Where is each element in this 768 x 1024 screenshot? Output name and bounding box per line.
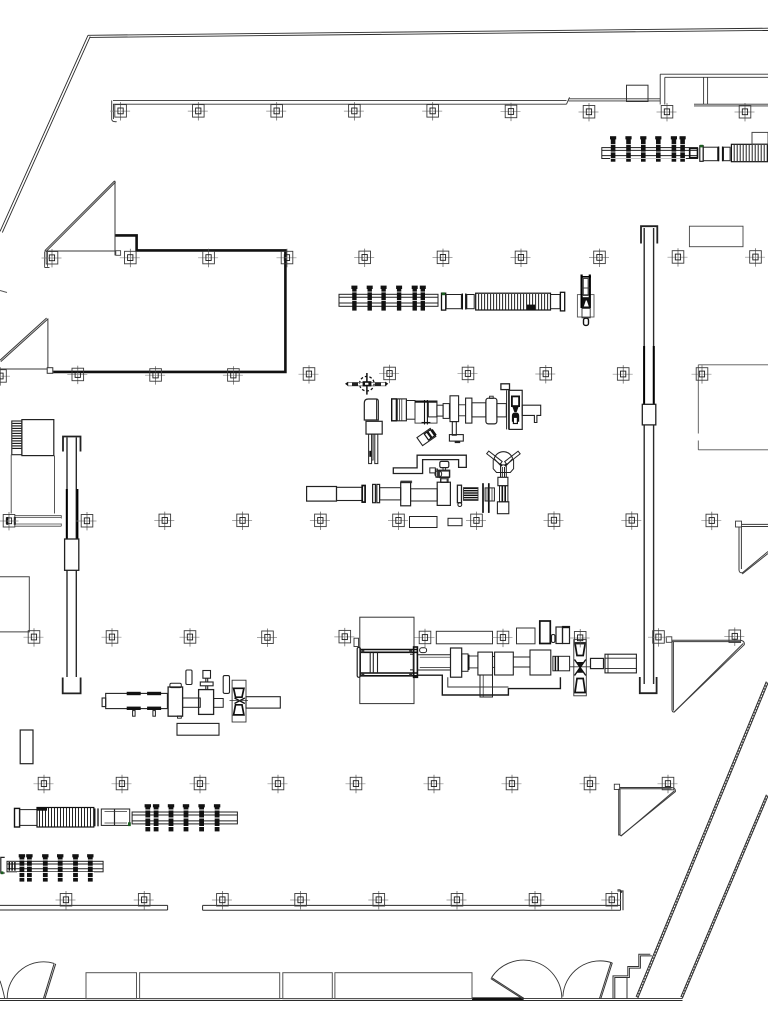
monorail right: top bracket (641, 226, 657, 243)
train B: collar pair (373, 484, 380, 502)
wall: right edge diagonal A double line with hatch (636, 682, 768, 999)
room rect far top-right corner (752, 132, 768, 144)
train C: collar (462, 654, 468, 671)
machine M2: outfeed (551, 295, 561, 309)
press: right bracket (410, 654, 413, 670)
conveyor BL3: drive block (9, 862, 15, 871)
train A: flange (466, 398, 472, 423)
conveyor TR1: teeth notches (610, 145, 686, 159)
conveyor TR1: end block (690, 148, 698, 157)
conveyor TR1: teeth heads (610, 136, 686, 139)
agitator: left frame (483, 483, 494, 513)
wall cap bracket at triangle-1 base (45, 252, 50, 268)
filler machine: foot mark (369, 451, 371, 457)
train D: pill 2 (223, 676, 229, 694)
wall: bottom band with end hook (203, 890, 623, 910)
monorail right: rails (644, 228, 653, 684)
valve symbol with crosshair (345, 373, 388, 395)
duct valve: bottom piece (441, 477, 448, 482)
train C: end machine (605, 654, 636, 673)
conveyor M1: teeth heads (351, 286, 425, 289)
small rect pair below train B (410, 517, 438, 528)
cabinet cluster: right rect (563, 627, 570, 644)
wall: inverted-L top right (660, 74, 768, 104)
train D: big block (168, 687, 183, 716)
long thin rect above train C (436, 631, 492, 644)
press: corner blocks (361, 650, 412, 676)
machine M2: infeed cap with green tick (442, 293, 446, 310)
conveyor BL3: teeth heads (19, 854, 94, 857)
beam: right segment (694, 104, 768, 106)
train A: section 1 (397, 399, 406, 421)
torque frame left: bowtie unit (230, 680, 249, 722)
window panel 2 (140, 973, 280, 999)
room right-middle: top edge (698, 365, 768, 450)
machine TR2: collar (719, 147, 723, 162)
monorail right: bottom bracket (640, 677, 657, 693)
beam: top step segment (567, 97, 661, 104)
left machine: marker side bars (7, 517, 15, 525)
box on beam top right (627, 85, 649, 101)
mezzanine triangle 1 top-left (45, 181, 116, 256)
cabinet cluster: tall dark rect (540, 621, 551, 644)
conveyor M1: rail (339, 294, 438, 306)
monorail left: carriage box (65, 539, 79, 570)
train A: connector (437, 405, 443, 416)
train A: section 4 (428, 401, 437, 417)
conveyor BL3: comb rail (7, 861, 103, 872)
train A: tall block with foot (449, 396, 463, 443)
machine M2: hatched block (476, 293, 551, 310)
train D: long body (106, 693, 168, 708)
small cabinet left (20, 730, 33, 764)
left machine: ladder hatch block (12, 421, 22, 455)
tilted unit (417, 428, 437, 446)
platform outline below press (418, 675, 561, 695)
agitator: foot (497, 502, 508, 514)
monorail left: rails (67, 438, 76, 678)
train C: block with hang box (478, 652, 493, 675)
press: small nub left (354, 638, 359, 646)
train C: pipe 2 (493, 657, 495, 668)
train A: section 2 (406, 401, 415, 420)
train A: section 5 (443, 404, 449, 419)
monorail right: dark segment (644, 346, 654, 404)
train A: end cap (392, 399, 397, 421)
train B: big flange (401, 482, 411, 506)
conveyor TR1: teeth (611, 138, 685, 161)
small rect above labeller (501, 384, 510, 390)
train C: block 2 (495, 652, 514, 675)
column grid row 5 (24, 628, 745, 648)
agitator: stem (501, 465, 507, 477)
window panel 3 (283, 973, 333, 999)
small pad below duct (401, 481, 413, 484)
motor with fins (457, 485, 478, 506)
duct valve: stem and body (443, 468, 446, 471)
door threshold dark segment (472, 997, 524, 1000)
duct valve: left square (430, 468, 436, 473)
room: thick-walled hall top-left (53, 235, 285, 372)
press: big room rect (360, 617, 414, 703)
conveyor M1: teeth (352, 287, 425, 310)
machine TR2: mid piece (724, 147, 731, 161)
train D: left cap (102, 698, 106, 707)
wall: top edge double line (88, 28, 768, 37)
left machine: rails with end hooks (15, 515, 62, 526)
table below train D (177, 723, 219, 735)
monorail left: dark segment (67, 489, 78, 539)
train B: dark flange (362, 486, 365, 503)
agitator: lower body (500, 486, 508, 502)
torque frame right: bowtie unit (570, 640, 591, 696)
press: end caps (357, 647, 360, 677)
train A: cross divider (422, 400, 431, 425)
wall corner right with diagonal brace (736, 521, 768, 574)
train B: pipe (380, 488, 401, 500)
cabinet cluster: mid rect (556, 627, 563, 644)
agitator: collar (498, 477, 508, 485)
train D: feet (133, 711, 156, 717)
column grid row 6 (34, 775, 678, 793)
conveyor TR1: rail (602, 148, 698, 159)
machine TR2: body (703, 147, 718, 161)
conveyor BL2: teeth notches (143, 810, 221, 827)
window panel 4 (335, 973, 472, 999)
node: small square below step (116, 251, 121, 256)
train A: roller with nub (490, 396, 494, 398)
stairs bottom right (613, 954, 652, 998)
machine M2: body (446, 295, 461, 309)
wall: upper-left diagonal double line (0, 35, 90, 232)
room rect top-right (689, 226, 743, 247)
conveyor BL2: comb rail (132, 812, 237, 824)
machine TR2: infeed bar with green tick (700, 146, 703, 162)
press: oval right (420, 648, 427, 653)
column grid row 7 (56, 891, 622, 909)
wall: top long beam with end hook (112, 100, 567, 121)
outfeed plate with notch (522, 405, 541, 422)
train D: outfeed bar (246, 697, 280, 708)
conveyor BL2: teeth (145, 807, 219, 832)
train B: big block (437, 482, 450, 505)
press: inner posts (370, 652, 377, 673)
window panel 1 (86, 973, 137, 999)
train B: valve circle above (435, 471, 442, 478)
duct Z-shape (393, 455, 466, 473)
machine M2: collar (462, 294, 466, 310)
labeller box with dark parts (509, 390, 522, 429)
train A: plate lines (507, 390, 509, 429)
room rect at left edge (0, 577, 29, 632)
cabinet cluster: pill slot (552, 635, 555, 643)
train A: pipe 3 (497, 404, 506, 417)
train C: connector pipe (417, 655, 450, 670)
machine M2: end cap (560, 292, 564, 311)
train D: T-machine (199, 671, 214, 715)
door middle 2: leaf and arc (563, 961, 612, 999)
train A: wide section (415, 401, 437, 423)
gusset triangle right 2 (614, 784, 675, 836)
wall: right edge diagonal B double line with hatch (681, 795, 768, 999)
wall: vertical pair below top-right beam (704, 77, 708, 104)
train B: pipe 2 (411, 489, 438, 501)
left machine: head box (22, 420, 54, 456)
train B: top connector (441, 479, 448, 482)
train B: rect 1 (307, 487, 337, 502)
wall: bottom-left double line (0, 905, 168, 910)
train C: connector right (591, 658, 604, 668)
conveyor BL3: teeth notches (17, 860, 94, 878)
train D: connector (183, 698, 201, 707)
machine M2: mid piece (467, 295, 474, 309)
train D: connector 2 (214, 699, 224, 708)
filler machine: body (366, 421, 382, 434)
column grid row 2 (42, 248, 766, 267)
conveyor BL2: teeth heads (145, 804, 221, 807)
door far left: leaf and arc (0, 962, 56, 998)
wall: small tick at left edge (0, 291, 7, 293)
square rect above train C (517, 628, 536, 644)
gusset triangle right 1 (666, 637, 744, 713)
train D: pill 1 (186, 670, 192, 685)
duct valve: top cap (440, 461, 449, 467)
monorail left: bottom bracket (63, 678, 81, 694)
train C: pipe 3 (513, 657, 530, 667)
train C: collar 2 (553, 656, 570, 671)
column grid row 4 (0, 511, 721, 530)
train B: rect 2 (337, 487, 363, 500)
column grid row 3 (0, 365, 712, 386)
conveyor M1: teeth notches (350, 292, 426, 301)
agitator wheel: arcs and arms (487, 451, 520, 472)
node: small square at triangle-2 base (47, 368, 53, 374)
machine TR2: hatched block (731, 144, 768, 161)
filler machine: legs (369, 434, 378, 464)
train C: pipe (470, 656, 478, 668)
column grid row 1 (110, 102, 754, 121)
conveyor BL3: teeth (20, 857, 93, 882)
door middle 1: leaf and arc (491, 960, 562, 999)
train A: pipe (459, 405, 466, 416)
monorail right: carriage box (642, 404, 656, 425)
train D: dark pads (127, 692, 161, 710)
train A: pipe 2 (472, 403, 486, 417)
monorail left: top bracket (63, 437, 81, 452)
wall bracket hook bottom right (617, 890, 621, 893)
wall: bottom edge double line (0, 999, 683, 1001)
filler machine: head (364, 399, 378, 420)
machine M3: vertical unit (577, 275, 594, 326)
train C: block 3 (530, 650, 551, 675)
train C: flange (451, 648, 462, 677)
press: table beams (360, 650, 417, 676)
duct valve: side bar (436, 469, 438, 477)
left machine: tall body (11, 455, 54, 514)
conveyor BL1: hatched belt (15, 808, 131, 828)
mezzanine triangle 2 left (0, 318, 51, 369)
conveyor BL3: left bracket with green mark (1, 857, 5, 873)
